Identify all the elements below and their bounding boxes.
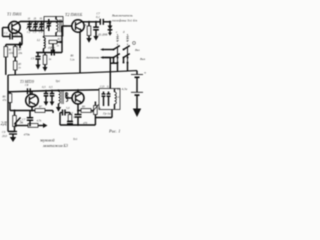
svg-text:звуковой: звуковой [39,138,54,143]
svg-text:Вкл: Вкл [135,48,140,52]
capacitor C4 [39,22,45,34]
svg-text:Т2 П401Б: Т2 П401Б [65,12,83,17]
wire under C1 [21,37,23,45]
svg-text:Антенна: Антенна [85,56,99,60]
capacitor C5 to ground [31,53,41,70]
svg-text:Рис. 1: Рис. 1 [108,129,121,134]
trimmer resistor with arrow [48,38,63,53]
svg-text:Д1 Д9Б: Д1 Д9Б [97,33,108,37]
svg-text:С13: С13 [100,86,105,89]
svg-text:4,7к: 4,7к [37,120,42,123]
svg-text:20,0: 20,0 [2,135,7,138]
coil in box [115,89,117,109]
resistor R2 [13,47,22,58]
diode D1 [97,22,112,37]
switch contact row 1 [100,46,130,51]
transistor T3 [26,91,39,110]
wire base vertical [61,26,63,53]
resistor R3 potentiometer [13,61,21,70]
svg-text:0,5: 0,5 [42,86,46,89]
resistor R7 [35,106,53,123]
coil L1 [56,17,61,37]
transistor T2 [72,20,84,32]
capacitor C10 to ground [49,86,54,106]
stage1 bottom rail [36,52,62,54]
coil L2 under box [44,36,46,53]
capacitor C13 dark [67,122,73,126]
transistor T1 [8,21,21,34]
svg-text:Вых: Вых [140,57,146,61]
coil box L1 [44,17,63,37]
resistor R4 [86,21,91,43]
svg-text:5,1к: 5,1к [70,59,75,62]
node dot [109,21,111,23]
transformer Tr1 [56,89,73,111]
capacitor C3 [33,22,39,34]
T3 emitter wire [10,110,35,112]
svg-text:Т1 П401: Т1 П401 [7,12,22,17]
capacitor C14 emitter [70,111,82,126]
resistor R9 emitter T4 [77,106,94,113]
svg-text:Гр-1а: Гр-1а [102,112,111,116]
svg-text:5к: 5к [20,121,24,125]
wire emitter down [21,34,24,37]
output tank box [99,89,120,110]
resistor R6 [2,92,12,111]
wire box top to switch [109,58,111,89]
stage2 bottom rail [60,124,95,126]
svg-text:С1: С1 [4,31,8,35]
svg-text:5,0: 5,0 [66,107,70,110]
wire base T1 left [3,27,10,29]
svg-text:телефона Тл1 б/к: телефона Тл1 б/к [112,19,138,23]
transistor T4 [72,89,84,110]
capacitor C8 series in wire [25,84,30,94]
potentiometer R10 vertical [92,102,102,126]
capacitor C9 to ground [42,86,48,106]
svg-text:Тл1: Тл1 [73,137,78,141]
capacitor C7 series [96,15,110,25]
wire pot lower to R10 [15,125,26,127]
svg-text:2Д: 2Д [1,121,8,127]
stage2 supply rail [8,71,137,75]
capacitor in box 1 [102,92,106,107]
capacitor C1 [3,31,23,39]
wire T2 base [62,25,72,27]
wire top rail stage1 [20,21,63,23]
capacitor to ground [93,21,99,41]
resistor R11 vertical [68,113,76,122]
switch contact row 2 [100,54,130,59]
resistor R1 [4,47,14,75]
node dots rail [29,21,43,23]
wire R3 to rail [14,70,16,75]
svg-text:Тр1: Тр1 [56,79,61,83]
capacitor in box 2 [107,92,111,107]
wire left vertical [2,28,4,37]
battery B1 [116,70,147,110]
junction dots stage2 [14,110,80,127]
stage2 upper wire [8,90,99,92]
capacitor C11 electrolytic [2,131,17,142]
potentiometer R8 [1,111,24,132]
switch side labels [133,42,136,45]
chassis arrow up stage1 [18,41,23,48]
switch stems [116,34,128,48]
svg-text:R4: R4 [82,24,87,27]
svg-text:470: 470 [83,122,88,125]
ground arrow battery [133,109,141,118]
svg-text:L1: L1 [63,24,68,28]
trimmer capacitor C5 in box [46,19,52,31]
svg-text:L2: L2 [36,38,41,42]
box bottom loop [95,110,112,118]
wire R2 to R3 [14,57,16,61]
capacitor C2 [27,22,33,34]
svg-text:10: 10 [15,33,19,37]
left vertical stage2 [7,75,9,132]
capacitor C12 wire [60,107,70,125]
svg-text:монтажом Б3: монтажом Б3 [42,143,68,148]
capacitor C15 [22,111,33,126]
svg-text:0,5: 0,5 [49,86,53,89]
capacitor C6 series in rail [49,47,54,56]
switch lower contacts [110,58,128,72]
svg-text:Выключатель: Выключатель [112,14,133,18]
svg-text:470к: 470к [24,133,31,137]
resistor R5 to ground [43,53,52,72]
wire T2 emitter down [79,32,81,73]
wire bottom of cap bank [30,30,45,32]
wire T2 collector rail [84,21,100,23]
resistor R10 [25,123,48,128]
svg-text:+: + [144,70,147,75]
